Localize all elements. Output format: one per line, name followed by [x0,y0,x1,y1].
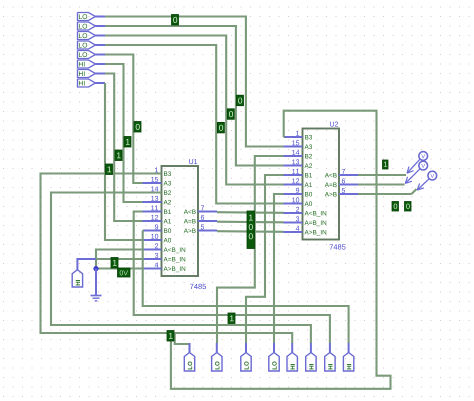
state 0 on LO3 wire [227,109,234,120]
wire U1 A=B out to U2 pin 3 [217,221,284,224]
terminal HI (A=B_IN source) [72,270,82,287]
U1 pin 3 A=B_IN stub [143,253,186,263]
wire U1 pin 14 B2 from terminal t6 [51,193,311,344]
wire U1 pin 9 B0 from terminal t8 [143,231,349,344]
wire U1 pin 1 B3 from terminal t5 [41,174,293,344]
input terminal HI6 (left) [78,60,106,68]
input terminal LO4 (left) [78,41,106,49]
wire U1 pin 2 A<B_IN from node [96,250,143,269]
U1 pin 11 B1 stub [143,205,172,213]
input terminal LO3 (left) [78,32,106,40]
state 0 on LO2 wire [237,95,244,106]
U1 pin 1 B3 stub [143,167,172,175]
probe V1 on U2 A<B [407,152,428,174]
state 0 on LO5 wire [134,122,141,133]
U2 pin 1 B3 stub [284,131,313,139]
U1 pin 6 A=B output stub [184,215,217,223]
U2 pin 4 A>B_IN stub [284,226,327,236]
0V voltage label [118,268,131,277]
U2 pin 3 A=B_IN stub [284,216,327,226]
state 0 on LO1 wire [172,15,179,26]
wire LO4 to U2 pin 10 A0 [105,45,284,204]
wire LO1 to U2 pin 15 A3 [105,17,284,147]
U1 pin 15 A3 stub [143,177,172,185]
wire LO2 to U2 pin 13 A2 [105,26,284,166]
wire U2 A>B out [358,189,417,194]
U2 pin 15 A3 stub [284,140,313,148]
U2 refdes label [330,122,338,127]
op-amp U2 7485 comparator body [303,129,340,240]
state 0 on LO4 wire [217,122,224,132]
wire terminal t1 to B3 net [175,333,190,353]
U2 value 7485 label [330,244,346,249]
state 0 probe b [405,202,412,212]
wire LO3 to U2 pin 12 A1 [105,36,284,185]
bottom terminal HI t6 [306,343,316,371]
state 1 near U2 A<B [383,160,389,169]
bottom terminal LO t3 [241,343,251,371]
state stack 1/0/0 on U1 outputs [247,211,255,249]
U1 pin 7 A<B output stub [184,205,217,213]
wire U1 pin 4 A>B_IN from node [96,267,143,269]
wire HI3 to U1 pin 10 A0 [105,83,143,240]
bottom terminal HI t8 [343,343,353,371]
bottom terminal LO t2 [212,343,222,371]
wire U2 A<B out [358,174,406,176]
U1 pin 5 A>B output stub [184,224,217,232]
node junction dot [93,266,98,271]
ground stem wire [95,269,97,296]
U2 pin 10 A0 stub [284,197,313,206]
U2 pin 13 A2 stub [284,159,313,167]
input terminal LO2 (left) [78,22,106,30]
input terminal HI7 (left) [78,70,106,78]
probe V2 on U2 A=B [405,161,427,183]
probe V3 on U2 A>B [417,171,436,190]
wire U2 A=B out [358,183,405,185]
input terminal HI8 (left) [78,79,106,87]
U2 pin 7 A<B output stub [325,169,358,177]
U2 pin 14 B2 stub [284,150,313,158]
state 1 on B3 net [167,331,174,342]
input terminal LO1 (left) [78,13,106,21]
wire HI2 to U1 pin 12 A1 [105,74,143,222]
bottom terminal LO t4 [269,343,279,371]
U2 pin 9 B0 stub [284,188,313,197]
U2 pin 6 A=B output stub [325,178,358,186]
U1 pin 13 A2 stub [143,196,172,204]
U1 value 7485 label [190,284,206,289]
U2 pin 12 A1 stub [284,178,313,186]
state 1 on A=B_IN wire [111,258,118,269]
U1 pin 12 A1 stub [143,215,172,223]
U1 pin 9 B0 stub [143,224,172,233]
state 1 on B1 net [228,313,235,324]
bottom terminal HI t7 [325,343,335,371]
wire U1 pin 11 B1 from terminal t7 [134,212,330,344]
wire U1 A>B out to U2 pin 4 [217,230,284,233]
input terminal LO5 (left) [78,51,106,59]
U1 pin 4 A>B_IN stub [143,262,186,272]
state 1 on HI1 wire [124,137,131,148]
U1 pin 14 B2 stub [143,186,172,194]
ground [91,296,102,301]
U2 pin 11 B1 stub [284,169,313,177]
state 0 probe a [392,202,399,212]
U1 pin 2 A<B_IN stub [143,243,186,253]
op-amp U1 7485 comparator body [162,166,199,276]
state 1 on HI2 wire [115,150,122,161]
wire U2 pin 11 B1 from terminal t3 [246,175,284,343]
U1 pin 10 A0 stub [143,234,172,243]
wire U2 pin 1 B3 loop to bottom net [171,111,391,389]
bottom terminal LO t1 [184,343,194,371]
wire U2 pin 9 B0 from terminal t4 [274,194,284,343]
wire HI1 to U1 pin 13 A2 [105,64,143,202]
wire U2 pin 14 B2 from terminal t2 [217,156,284,343]
bottom terminal HI t5 [287,343,297,371]
wire U1 A<B out to U2 pin 2 [217,211,284,214]
wire LO5 to U1 pin 15 A3 [105,55,143,184]
U2 pin 2 A<B_IN stub [284,207,327,217]
wire U1 pin 3 A=B_IN from HI terminal [77,259,142,270]
state 1 on HI3 wire [106,164,113,175]
U1 refdes label [189,159,197,164]
U2 pin 5 A>B output stub [325,188,358,196]
